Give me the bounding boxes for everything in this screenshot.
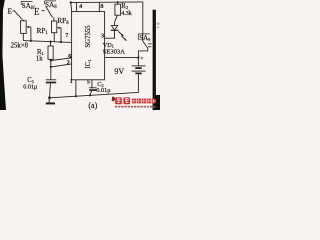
svg-text:0.01μ: 0.01μ <box>96 87 111 94</box>
svg-text:(a): (a) <box>88 101 97 110</box>
svg-text:9V: 9V <box>114 67 124 76</box>
svg-text:E: E <box>34 7 40 17</box>
svg-text:0.01μ: 0.01μ <box>23 83 38 90</box>
svg-text:R2: R2 <box>121 3 129 10</box>
svg-text:1k: 1k <box>36 56 43 63</box>
svg-text:2: 2 <box>67 60 70 67</box>
svg-text:SE303A: SE303A <box>103 48 126 55</box>
svg-text:SG7555: SG7555 <box>85 25 92 48</box>
svg-text:25k×8: 25k×8 <box>11 43 29 50</box>
svg-text:E: E <box>8 8 12 16</box>
svg-text:3: 3 <box>101 32 104 39</box>
svg-text:1: 1 <box>70 78 73 85</box>
svg-text:5: 5 <box>87 79 90 86</box>
svg-text:4.3k: 4.3k <box>121 10 132 17</box>
svg-text:IC1: IC1 <box>85 59 92 69</box>
